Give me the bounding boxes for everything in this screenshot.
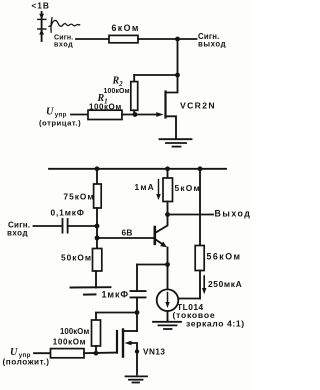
wire emitter node to 1мкФ (137, 264, 168, 266)
node gate junction VN13 (94, 351, 99, 356)
node base junction (95, 236, 100, 241)
wire to output label (178, 38, 197, 40)
label TL014 (токовое зеркало 4:1) (173, 302, 245, 328)
current source U2 TL014 (157, 289, 179, 311)
svg-text:зеркало 4:1): зеркало 4:1) (186, 319, 245, 329)
transistor U1 VCR2N (JFET) (166, 75, 178, 138)
svg-text:U: U (46, 106, 54, 117)
svg-text:U: U (10, 347, 18, 358)
resistor R1 (88, 110, 122, 119)
svg-text:VN13: VN13 (143, 348, 165, 357)
wire node down to VN13 drain (136, 313, 138, 332)
svg-text:VCR2N: VCR2N (180, 101, 216, 111)
node cap junction (95, 224, 100, 229)
svg-text:100кОм: 100кОм (89, 102, 122, 111)
svg-text:0,1мкФ: 0,1мкФ (51, 208, 85, 218)
wire TL014 to ground (167, 311, 169, 321)
input sine waveform symbol (49, 18, 80, 32)
resistor 56кОм (195, 246, 204, 299)
wire node to 100кОм vertical (96, 313, 137, 321)
wire drain node to R2 top (134, 74, 177, 76)
svg-text:6В: 6В (122, 228, 133, 238)
wire gate with arrow to VCR2N (122, 112, 164, 117)
transistor Q1 (NPN) (155, 215, 168, 265)
amplitude marker arrows (38, 12, 46, 41)
node rail/5кОм (165, 166, 170, 171)
wire 56кОм branch from rail (199, 169, 201, 246)
node output junction (175, 37, 180, 42)
node source junction VN13 (135, 349, 139, 353)
wire Uупр to 100кОм horizontal (34, 352, 51, 354)
svg-text:(отрицат.): (отрицат.) (39, 118, 81, 127)
svg-text:вход: вход (54, 42, 73, 49)
label 250мкА with current arrow (202, 276, 242, 294)
ground (under 50кОм) (71, 287, 111, 294)
svg-text:(положит.): (положит.) (3, 357, 50, 366)
transistor Q2 VN13 (MOSFET) (117, 330, 137, 375)
node emitter junction (165, 262, 170, 267)
node drain/R2 junction (175, 73, 180, 78)
node collector/output junction (165, 212, 170, 217)
svg-text:<1В: <1В (32, 0, 50, 10)
resistor 5кОм (163, 169, 173, 215)
wire Uупр to R1 (71, 114, 88, 116)
wire emitter node down to TL014 (167, 265, 169, 290)
wire supply rail (bottom circuit) (49, 168, 226, 170)
svg-text:100кОм: 100кОм (104, 88, 130, 95)
wire C to cap node (68, 225, 97, 227)
resistor R2 (131, 75, 138, 115)
resistor 75кОм (94, 169, 102, 226)
ground (bottom VN13) (126, 376, 148, 382)
svg-text:Сигн.: Сигн. (54, 35, 73, 42)
capacitor 0,1мкФ (63, 219, 68, 233)
wire 56кОм to current mirror (178, 298, 200, 300)
svg-text:75кОм: 75кОм (64, 192, 95, 202)
svg-text:250мкА: 250мкА (208, 279, 242, 289)
svg-text:6кОм: 6кОм (112, 23, 140, 33)
svg-text:100кОм: 100кОм (60, 327, 89, 336)
ground (under TL014) (153, 322, 181, 329)
svg-text:1мкФ: 1мкФ (102, 290, 129, 300)
svg-text:вход: вход (7, 228, 28, 237)
wire output Выход (168, 214, 214, 216)
node gate junction R1/R2 (133, 112, 138, 117)
wire output node down to drain node (177, 39, 179, 75)
svg-text:выход: выход (198, 39, 226, 48)
node cap 1мкФ bottom junction (135, 310, 140, 315)
resistor 100кОм (horizontal) (51, 349, 85, 358)
svg-text:5кОм: 5кОм (175, 183, 201, 193)
resistor 100кОм (vertical) (92, 320, 101, 353)
resistor 50кОм (93, 249, 102, 288)
label 1мА with current arrow (135, 180, 161, 201)
node rail/75кОм (95, 166, 100, 171)
resistor 6кОм (109, 35, 138, 42)
capacitor 1мкФ (131, 265, 146, 313)
svg-text:1мА: 1мА (135, 182, 155, 192)
node rail/56кОм (198, 166, 203, 171)
wire base node to Q1 base (97, 237, 154, 239)
svg-text:56кОм: 56кОм (207, 252, 242, 262)
wire gate to VN13 (84, 352, 116, 355)
ground (top circuit) (160, 139, 192, 146)
svg-text:100кОм: 100кОм (53, 338, 86, 347)
wire 6кОм to output node (138, 38, 178, 40)
svg-text:50кОм: 50кОм (61, 253, 92, 263)
label Uупр (положит.) (3, 347, 50, 367)
wire input to C 0,1мкФ (34, 225, 63, 227)
wire cap node down to 50кОм (96, 226, 98, 249)
svg-text:Выход: Выход (215, 209, 251, 219)
wire input to 6кОм (76, 38, 109, 40)
